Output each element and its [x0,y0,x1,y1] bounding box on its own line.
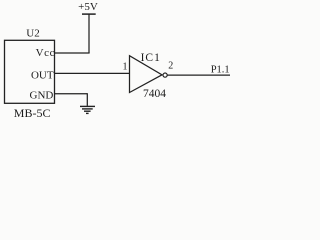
svg-text:U2: U2 [26,28,39,40]
svg-text:+5V: +5V [78,1,98,13]
pin number 2 [168,61,173,72]
wire Vcc pin to +5V [55,52,90,54]
wire inverter output to P1.1 [167,74,230,76]
pin label Vcc [36,47,55,59]
pin label OUT [31,70,54,82]
inverter IC1 triangle [130,56,163,93]
svg-text:2: 2 [168,61,173,72]
wire +5V vertical drop [88,14,90,53]
wire GND pin horizontal [55,93,88,95]
refdes IC1 [141,52,161,64]
svg-text:OUT: OUT [31,70,54,82]
value label 7404 [143,88,166,100]
power +5V bar symbol [82,13,96,15]
module U2 (MB-5C) body [5,40,55,103]
net label P1.1 [211,65,230,76]
inverter IC1 output bubble [163,73,167,77]
svg-text:Vcc: Vcc [36,47,55,59]
wire GND vertical drop [86,93,88,106]
refdes U2 [26,28,39,40]
wire OUT pin to inverter input [55,72,130,74]
svg-text:7404: 7404 [143,88,166,100]
pin label GND [30,90,54,102]
pin number 1 [123,62,128,73]
svg-text:MB-5C: MB-5C [14,106,51,120]
power +5V label [78,1,98,13]
svg-text:GND: GND [30,90,54,102]
svg-text:P1.1: P1.1 [211,65,230,76]
value label MB-5C [14,106,51,120]
svg-text:1: 1 [123,62,128,73]
svg-text:IC1: IC1 [141,52,161,64]
ground symbol [80,106,95,113]
